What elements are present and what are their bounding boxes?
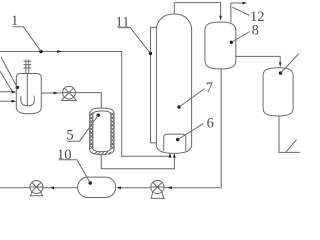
- wire vessel 8 down to pump P3: [164, 69, 221, 188]
- label 12: [250, 9, 265, 25]
- circulation tube 11: [151, 27, 157, 143]
- node leader 9: [279, 71, 282, 74]
- vessel 8: [205, 22, 236, 69]
- pump P2 stand: [30, 192, 43, 196]
- wire pump P3 to tank 10: [121, 187, 151, 189]
- pump P3: [151, 180, 164, 193]
- arrow vent: [242, 2, 247, 5]
- tank 10: [78, 177, 116, 197]
- arrow inlet 2: [12, 100, 17, 103]
- wire tank 10 to pump P2 and out: [0, 187, 78, 189]
- node leader 8: [230, 41, 233, 44]
- leader for label 9: [281, 54, 299, 74]
- reactor vessel body: [16, 74, 41, 114]
- wire reactor inlet 2: [0, 100, 12, 102]
- label 5: [66, 128, 73, 144]
- label 11: [116, 15, 130, 31]
- wire vessel 9 bottom outlet: [279, 116, 300, 153]
- node leader 10: [89, 181, 92, 184]
- pump P1: [63, 86, 76, 99]
- leader for label 11: [118, 28, 150, 54]
- leader for label 6: [178, 124, 204, 140]
- svg-text:7: 7: [206, 80, 213, 96]
- leader bottom right: [286, 140, 297, 153]
- column 5 jacket hatch bottom: [94, 152, 110, 155]
- leader for label 8: [232, 32, 250, 43]
- node on reactor wall: [16, 86, 19, 89]
- node leader 5: [97, 114, 100, 117]
- svg-text:12: 12: [250, 9, 265, 25]
- label 6: [207, 116, 214, 132]
- leader for label 1: [12, 27, 41, 52]
- vessel 9: [263, 68, 293, 116]
- arrow into tank 10: [116, 186, 121, 189]
- node on tube 11: [149, 52, 152, 55]
- label 8: [252, 23, 259, 39]
- leader for label 7: [179, 89, 205, 107]
- pump P2: [30, 181, 43, 194]
- vent line 12: [231, 3, 243, 22]
- node leader 6: [176, 138, 179, 141]
- inner cylinder 6: [164, 134, 186, 151]
- flow arrow on main feed: [57, 50, 63, 53]
- pump P1 stand: [61, 97, 77, 100]
- wire vessel 8 to vessel 9: [236, 56, 280, 62]
- wire pump P1 to column 5: [75, 93, 101, 109]
- wire main feed line: [0, 52, 170, 157]
- arrow into pump P3: [167, 186, 172, 189]
- tower 7 shell: [156, 14, 191, 153]
- reactor stirrer shaft with gland: [23, 60, 31, 74]
- tower 7 top nozzle: [173, 3, 175, 14]
- arrow reactor outlet: [54, 92, 59, 95]
- leader for label 5: [67, 115, 98, 141]
- arrow into vessel 9: [279, 62, 282, 67]
- leader for label 10: [59, 160, 90, 183]
- arrow inlet 1: [12, 91, 17, 94]
- wire tower top to vessel 8: [174, 3, 220, 16]
- wire reactor outlet: [41, 92, 62, 94]
- label 1: [11, 13, 18, 29]
- wire column 5 outlet to tower bottom: [101, 155, 174, 169]
- arrow into tower bottom left: [169, 152, 172, 157]
- wire reactor inlet 1: [0, 91, 12, 93]
- svg-text:11: 11: [116, 15, 130, 31]
- column 5 outer shell: [90, 108, 115, 155]
- svg-text:10: 10: [57, 147, 72, 163]
- column 5 jacket hatch left: [90, 113, 93, 150]
- node junction on main feed: [39, 50, 42, 53]
- svg-text:6: 6: [207, 116, 214, 132]
- column 5 inner liner: [93, 111, 111, 152]
- arrow into tower bottom right: [173, 153, 176, 158]
- column 5 jacket hatch right: [111, 113, 114, 150]
- arrow into vessel 8: [219, 16, 222, 21]
- wire inlet diagonal A: [1, 57, 17, 87]
- node leader 7: [177, 105, 180, 108]
- arrow into pump P2: [50, 186, 54, 189]
- wire inlet diagonal B: [0, 71, 12, 91]
- reactor inner shaft: [26, 74, 28, 107]
- label 7: [206, 80, 213, 96]
- reactor agitator U: [21, 96, 34, 106]
- leader for label 12: [232, 7, 249, 15]
- pump P3 stand: [151, 192, 165, 199]
- label 10: [57, 147, 72, 163]
